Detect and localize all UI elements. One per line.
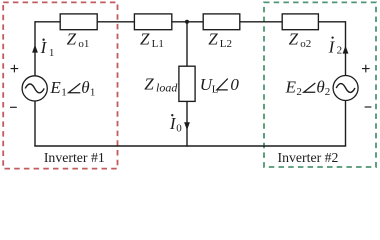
wire bottom: [34, 145, 346, 147]
current arrow I1 (up): [32, 45, 38, 53]
svg-text:θ: θ: [81, 78, 89, 97]
svg-text:2: 2: [296, 86, 302, 98]
impedance Zo2 box: [282, 14, 318, 30]
svg-text:L2: L2: [220, 38, 232, 50]
wire top: ZL1 to ZL2 (through junction): [172, 21, 204, 23]
inverter #2 dashed boundary (green): [264, 2, 376, 167]
label UL angle 0: [200, 75, 240, 96]
svg-text:Z: Z: [208, 29, 218, 48]
svg-text:0: 0: [230, 75, 239, 94]
angle symbol in E1 label: [69, 83, 81, 92]
impedance Zo1 box: [60, 14, 97, 30]
label ZL1: [140, 29, 164, 50]
svg-text:o1: o1: [78, 38, 89, 50]
current arrow I2 (up): [343, 46, 349, 54]
label Zload: [144, 74, 178, 94]
svg-text:load: load: [156, 80, 178, 94]
wire top: ZL2 to Zo2: [240, 21, 283, 23]
label E1 theta1: [49, 78, 95, 99]
impedance Zload box: [179, 66, 195, 101]
label I0: [169, 114, 182, 134]
label I1: [40, 38, 55, 59]
minus terminal E1: [10, 106, 17, 108]
svg-text:0: 0: [176, 122, 182, 134]
wire middle vertical lower: [186, 101, 188, 147]
svg-text:o2: o2: [300, 38, 311, 50]
impedance ZL1 box: [134, 14, 171, 30]
source E2 circle: [333, 76, 358, 101]
node junction dot: [185, 20, 189, 24]
plus terminal E1: [11, 65, 19, 73]
svg-text:E: E: [285, 78, 297, 97]
svg-text:Inverter #2: Inverter #2: [278, 150, 339, 165]
source E2 sine: [336, 84, 355, 93]
svg-text:1: 1: [49, 47, 55, 59]
svg-text:L1: L1: [152, 38, 164, 50]
svg-text:1: 1: [61, 87, 66, 99]
minus terminal E2: [365, 106, 372, 108]
source E1 sine: [25, 84, 44, 93]
impedance ZL2 box: [203, 14, 240, 30]
wire left vertical upper: [34, 21, 36, 76]
svg-text:Z: Z: [67, 29, 77, 48]
current arrow I0 (down): [184, 122, 190, 130]
angle symbol in UL label: [217, 79, 228, 90]
svg-text:Z: Z: [289, 29, 299, 48]
wire top: Zo1 to ZL1: [97, 21, 135, 23]
wire left vertical lower: [34, 101, 36, 146]
plus terminal E2: [362, 65, 370, 73]
label Zo2: [289, 29, 312, 50]
label Zo1: [67, 29, 90, 50]
svg-text:Z: Z: [140, 29, 150, 48]
label ZL2: [208, 29, 232, 50]
wire middle vertical upper: [186, 22, 188, 67]
wire top: left node to Zo1: [35, 21, 61, 23]
wire right vertical upper: [345, 21, 347, 76]
svg-text:Inverter #1: Inverter #1: [44, 150, 105, 165]
svg-text:2: 2: [337, 45, 343, 57]
svg-text:Z: Z: [144, 74, 154, 93]
svg-text:1: 1: [90, 87, 96, 99]
angle symbol in E2 label: [304, 83, 316, 92]
label E2 theta2: [285, 78, 331, 99]
wire right vertical lower: [345, 100, 347, 146]
label I2: [328, 36, 343, 56]
svg-text:θ: θ: [316, 78, 324, 97]
svg-text:E: E: [49, 78, 61, 97]
inverter #1 dashed boundary (red): [3, 2, 117, 168]
svg-text:2: 2: [325, 86, 331, 98]
wire top: Zo2 to right node: [318, 21, 346, 23]
source E1 circle: [22, 76, 47, 101]
